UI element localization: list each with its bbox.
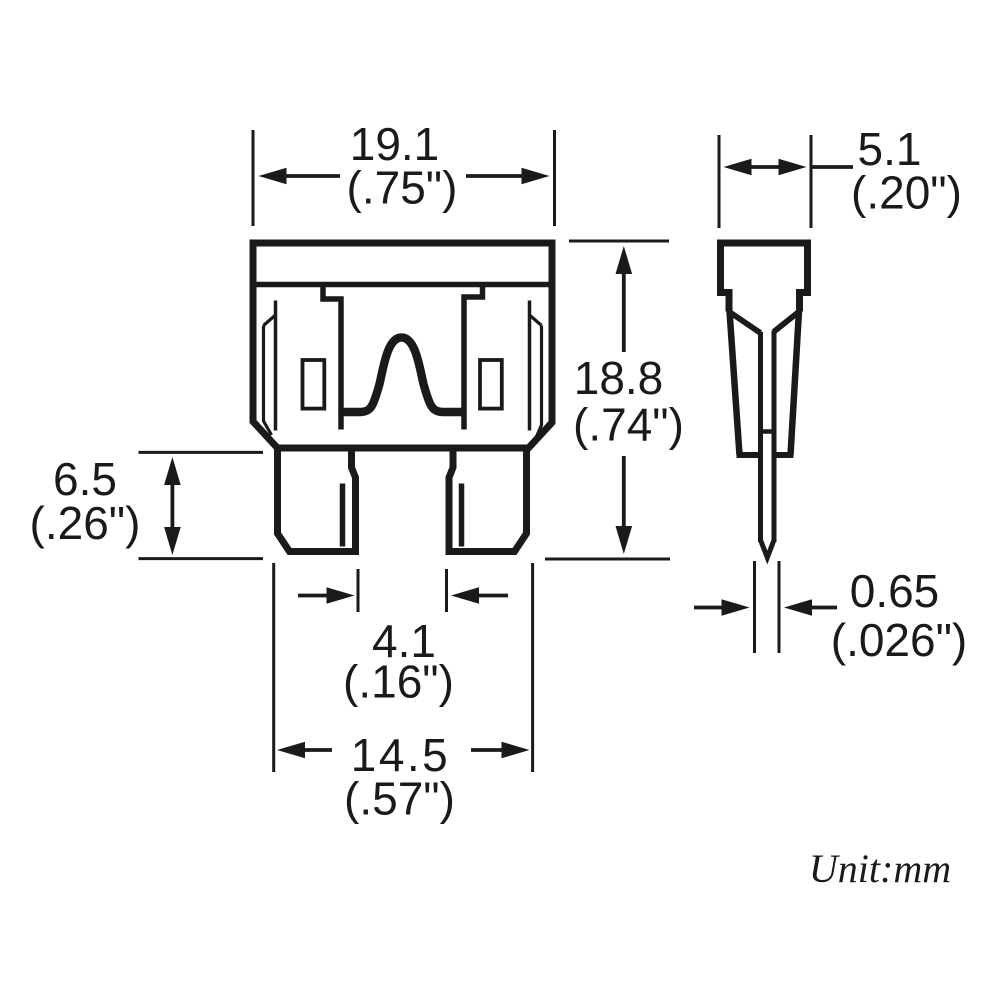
svg-text:Unit:mm: Unit:mm [809,846,951,891]
dim 0.65 left extension line [753,561,756,653]
right terminal step [464,285,483,430]
dim 5.1 right extension line [810,135,813,228]
left blade prong [278,448,356,552]
dim 0.65 right extension line [778,561,781,653]
fuse element curve [341,338,464,413]
fuse body front view outline [253,243,552,448]
left wing diagonal [264,315,276,326]
right window [480,360,502,409]
dim 5.1 arrow line [748,165,782,169]
dim 4.1 left extension line [357,569,360,612]
dim 6.5 arrow line [170,483,174,529]
dim 5.1 left extension line [718,135,721,228]
right wing inner line [528,301,532,431]
side view right housing side [791,311,800,455]
side view blade tip [761,540,775,558]
side view blade left edge [758,332,763,542]
dim 19.1 left arrow [285,174,340,178]
right wing diagonal [530,315,542,326]
left blade slot [340,484,346,547]
left wing outer line [264,326,272,436]
dim 19.1 left extension line [252,130,255,226]
dim 4.1 left arrow [298,594,328,598]
right blade prong [449,448,527,552]
side view blade crossbar [761,429,775,434]
dim 19.1 right arrow [466,174,523,178]
svg-text:(.57"): (.57") [344,773,455,825]
side view blade right edge [772,331,777,542]
side view cap and neck outline [721,243,808,312]
side view housing bottom left [737,452,761,458]
dim 19.1 right extension line [553,130,556,226]
left terminal step [323,285,341,430]
svg-text:(.16"): (.16") [343,656,454,708]
side view left shoulder [730,312,761,333]
dim 6.5 bottom extension line [139,557,264,560]
left wing inner line [274,301,278,431]
svg-text:(.74"): (.74") [573,399,684,451]
dim 14.5 left arrow [304,748,332,752]
dim 5.1 leader line [811,165,853,169]
dim 18.8 arrow line bottom [622,456,626,529]
dim 14.5 left extension line [272,563,275,772]
side view right shoulder [774,312,799,332]
dim 0.65 right arrow [810,606,837,610]
right wing outer line [536,326,542,440]
dim 18.8 arrow line top [622,272,626,352]
dim 0.65 left arrow [694,606,723,610]
dim 14.5 right arrow [471,748,502,752]
svg-text:0.65: 0.65 [850,565,940,617]
side view left housing side [730,311,740,455]
side view housing bottom right [774,452,794,458]
dim 6.5 top extension line [139,451,264,454]
left window [303,360,325,409]
dim 18.8 bottom extension line [545,558,670,561]
dim 4.1 right arrow [478,594,508,598]
dim 18.8 top extension line [569,240,669,243]
svg-text:18.8: 18.8 [574,352,664,404]
cap bottom line [253,282,552,288]
svg-text:(.75"): (.75") [347,162,458,214]
svg-text:(.26"): (.26") [30,497,141,549]
dim 14.5 right extension line [531,563,534,772]
right blade slot [459,484,465,547]
svg-text:(.20"): (.20") [851,167,962,219]
svg-text:(.026"): (.026") [831,614,968,666]
dim 4.1 right extension line [445,569,448,612]
